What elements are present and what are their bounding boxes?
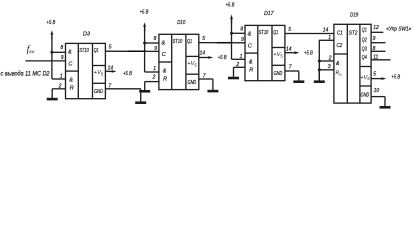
D10 column divider 2 <box>185 34 187 89</box>
svg-text:2: 2 <box>235 62 239 68</box>
D17 +5V vertical feed wire <box>231 20 233 60</box>
wire D3 Q1 (pin 5) to D10 pin 9 <box>105 50 158 52</box>
wire to D3 pin 1 <box>52 78 66 80</box>
ground at D17 GND pin <box>298 71 300 81</box>
svg-text:8: 8 <box>373 46 376 52</box>
svg-text:R: R <box>70 86 74 92</box>
svg-text:8: 8 <box>60 45 63 51</box>
svg-text:12: 12 <box>373 25 379 31</box>
svg-text:с вывода 11 МС D2: с вывода 11 МС D2 <box>1 70 51 77</box>
svg-text:&: & <box>162 41 166 47</box>
svg-text:1: 1 <box>153 66 156 72</box>
D3 pin 2 wire <box>52 88 65 90</box>
D17 left section divider <box>245 52 258 54</box>
svg-text:Q3: Q3 <box>362 47 367 53</box>
D10 pin 2 wire <box>145 81 159 83</box>
svg-text:Q1: Q1 <box>94 48 99 54</box>
D3 +V pin 14 wire with arrow <box>105 70 113 72</box>
svg-text:GND: GND <box>188 80 197 86</box>
svg-text:+5 В: +5 В <box>47 20 56 26</box>
ground at D17 pin 2 <box>233 67 235 77</box>
D17 right divider above GND <box>272 64 285 66</box>
svg-text:C: C <box>162 52 166 58</box>
D10 right divider above GND <box>186 73 199 75</box>
svg-text:2: 2 <box>58 83 62 89</box>
svg-text:14: 14 <box>323 28 329 34</box>
D17 pin 2 wire <box>234 66 246 68</box>
ground at D3 GND pin <box>140 89 142 102</box>
D3 GND pin 7 wire <box>105 88 140 90</box>
svg-text:Q1: Q1 <box>362 28 367 34</box>
ground at D19 GND pin <box>384 97 386 107</box>
D19 right divider above +V <box>360 66 371 68</box>
D3 left section divider <box>66 70 79 72</box>
D19 left section divider <box>334 53 347 55</box>
D19 column divider 1 <box>346 24 348 103</box>
wire to D19 pin 1 (C2) <box>319 39 334 41</box>
D3 +5V arrow up <box>51 30 54 35</box>
svg-text:GND: GND <box>94 89 103 95</box>
ground at D10 GND pin <box>212 79 214 90</box>
svg-text:9: 9 <box>373 36 376 42</box>
svg-text:&: & <box>249 59 253 65</box>
D17 column divider 1 <box>257 25 259 80</box>
svg-text:5: 5 <box>202 36 205 42</box>
svg-text:+5 В: +5 В <box>391 75 400 81</box>
svg-text:ST10: ST10 <box>79 48 89 54</box>
svg-text:GND: GND <box>274 71 283 77</box>
D10 +5V arrow up <box>143 22 146 27</box>
svg-text:+V5: +V5 <box>273 52 283 58</box>
D10 +V pin 14 wire with arrow <box>199 57 210 59</box>
D19 column divider 2 <box>359 24 361 103</box>
svg-text:+V5: +V5 <box>360 75 370 81</box>
svg-text:&: & <box>163 68 167 74</box>
D17 right divider above +V <box>272 47 285 49</box>
svg-text:Q1: Q1 <box>187 39 192 45</box>
svg-text:+5 В: +5 В <box>123 71 132 77</box>
svg-text:+5 В: +5 В <box>304 51 313 57</box>
D3 right divider above +V <box>93 65 106 67</box>
wire to D3 pin 8 <box>52 51 66 53</box>
D10 +5V vertical feed wire <box>144 28 146 73</box>
svg-text:8: 8 <box>154 36 157 42</box>
svg-text:5: 5 <box>288 27 291 33</box>
wire D17 Q1 (pin 5) to D19 pin 14 <box>285 33 334 35</box>
wire to D10 pin 1 <box>145 71 159 73</box>
svg-text:5: 5 <box>109 45 112 51</box>
svg-text:C2: C2 <box>337 43 343 49</box>
svg-text:14: 14 <box>286 46 292 52</box>
svg-text:7: 7 <box>203 74 206 80</box>
wire (dark segment) <box>128 50 146 52</box>
svg-text:D19: D19 <box>350 13 358 19</box>
D10 box <box>159 34 199 89</box>
svg-text:5: 5 <box>373 71 376 77</box>
D19 Q2 pin 9 stub <box>371 42 385 44</box>
svg-text:1: 1 <box>240 54 243 60</box>
svg-text:+5 В: +5 В <box>218 55 227 61</box>
svg-text:10: 10 <box>374 88 380 94</box>
D19 Q4 pin 11 stub <box>371 59 390 61</box>
D3 column divider 1 <box>77 43 79 98</box>
svg-text:ST10: ST10 <box>173 39 183 45</box>
junction dot at D10 pin 8 <box>143 42 146 45</box>
svg-text:ST2: ST2 <box>349 31 358 37</box>
junction dot at D19 pin 2 <box>318 60 321 63</box>
svg-text:7: 7 <box>108 83 111 89</box>
svg-text:1: 1 <box>60 74 63 80</box>
D19 right divider above GND <box>360 85 371 87</box>
D19 reset grounding vertical wire <box>318 40 320 80</box>
svg-text:14: 14 <box>200 51 206 57</box>
svg-text:C: C <box>68 61 72 67</box>
D3 column divider 2 <box>92 43 94 98</box>
svg-text:Q2: Q2 <box>362 38 367 44</box>
svg-text:9: 9 <box>154 46 157 52</box>
svg-text:D3: D3 <box>83 31 90 37</box>
svg-text:GND: GND <box>361 93 370 99</box>
wire D10 Q1 (pin 5) to D17 pin 9 <box>199 42 245 44</box>
D3 +5V vertical feed wire <box>51 36 53 79</box>
svg-text:3: 3 <box>328 64 331 70</box>
svg-text:+5 В: +5 В <box>226 3 235 9</box>
D10 right divider above +V <box>186 55 199 57</box>
svg-text:8: 8 <box>240 26 243 32</box>
svg-text:+V5: +V5 <box>94 70 104 76</box>
svg-text:&: & <box>69 77 73 83</box>
svg-text:R0: R0 <box>336 71 343 77</box>
svg-text:D10: D10 <box>177 20 185 26</box>
D17 +5V arrow up <box>230 15 233 20</box>
ground at D10 pin 2 <box>144 82 146 91</box>
svg-text:D17: D17 <box>264 11 274 17</box>
D17 +V pin 14 wire with arrow <box>285 52 296 54</box>
svg-text:ST10: ST10 <box>259 30 269 36</box>
wire to D10 pin 8 <box>145 42 159 44</box>
svg-text:11: 11 <box>373 54 378 60</box>
D19 +V pin 5 wire with arrow <box>371 78 383 80</box>
D17 box <box>245 25 285 80</box>
D3 right divider above GND <box>93 82 106 84</box>
D19 Q1 pin 12 output wire <box>371 31 383 33</box>
D10 column divider 1 <box>171 34 173 89</box>
svg-text:R: R <box>249 68 253 74</box>
svg-text:R: R <box>163 77 167 83</box>
D19 box <box>334 24 371 103</box>
D10 left section divider <box>159 61 172 63</box>
svg-text:C1: C1 <box>337 31 343 37</box>
D19 GND pin 10 wire <box>371 96 385 98</box>
svg-text:«Упр SW1»: «Упр SW1» <box>386 27 411 33</box>
junction dot at D3 pin 8 <box>50 51 53 54</box>
svg-text:+V5: +V5 <box>187 61 197 67</box>
svg-text:&: & <box>248 32 252 38</box>
D19 Q3 pin 8 stub <box>371 50 385 52</box>
svg-text:Q4: Q4 <box>362 55 367 61</box>
D3 box <box>66 43 106 98</box>
D10 GND pin 7 wire <box>199 78 213 80</box>
D17 column divider 2 <box>271 25 273 80</box>
svg-text:2: 2 <box>152 74 156 80</box>
ground at D3 pin 2 <box>51 89 53 98</box>
svg-text:2: 2 <box>328 56 332 62</box>
wire to D17 pin 1 <box>232 58 246 60</box>
wire (dark segment) <box>217 42 232 44</box>
svg-text:Q1: Q1 <box>273 30 278 36</box>
f_kv input wire to D3 pin 9 <box>25 60 65 62</box>
D17 GND pin 7 wire <box>285 70 299 72</box>
ground at D19 reset pins <box>318 70 320 81</box>
wire to D17 pin 8 <box>232 32 246 34</box>
svg-text:1: 1 <box>328 35 331 41</box>
junction dot at D19 pin 3 <box>318 68 321 71</box>
svg-text:C: C <box>248 43 252 49</box>
svg-text:9: 9 <box>241 37 244 43</box>
svg-text:&: & <box>68 50 72 56</box>
svg-text:&: & <box>336 61 340 67</box>
svg-text:7: 7 <box>289 65 292 71</box>
svg-text:+5 В: +5 В <box>140 10 149 16</box>
junction dot at D17 pin 8 <box>230 32 233 35</box>
wire to D19 pin 3 <box>319 69 334 71</box>
svg-text:9: 9 <box>61 55 64 61</box>
wire to D19 pin 2 <box>319 60 334 62</box>
